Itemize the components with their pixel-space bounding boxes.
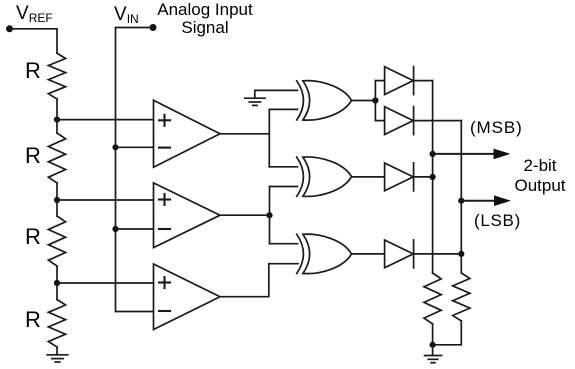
wire D1 cathode to MSB rail bbox=[414, 80, 433, 82]
wire R2 to tap2 bbox=[56, 183, 58, 200]
op-amp comparator U2 bbox=[154, 183, 221, 248]
wire to D2 anode bbox=[375, 120, 384, 122]
diode D1 (to MSB rail) bbox=[385, 67, 414, 95]
node D4 cathode junction bbox=[458, 251, 464, 257]
wire LSB rail vertical bbox=[460, 121, 462, 273]
wire LSB output arrow bbox=[461, 195, 511, 206]
label R1 bbox=[25, 58, 41, 84]
op-amp comparator U1 bbox=[154, 100, 221, 167]
op-amp comparator U3 bbox=[154, 264, 221, 330]
node MSB output junction bbox=[430, 151, 436, 157]
wire tap1 to R2 bbox=[56, 120, 58, 133]
wire tap2 to U2 non-inverting input bbox=[57, 199, 154, 201]
wire MSB rail vertical bbox=[432, 81, 434, 273]
diode D2 (to LSB rail) bbox=[385, 107, 414, 135]
wire VIN to U2 inverting input bbox=[116, 228, 154, 230]
node VIN to U1 bbox=[112, 144, 118, 150]
resistor MSB pulldown bbox=[424, 273, 441, 324]
XOR gate G1 bbox=[297, 81, 352, 120]
resistor R (third, R3) bbox=[48, 216, 65, 266]
resistor R (top, R1) bbox=[48, 53, 65, 99]
wire MSB output arrow bbox=[433, 149, 511, 160]
XOR gate G3 bbox=[297, 234, 352, 273]
wire to G2 lower input bbox=[270, 186, 298, 188]
wire tap3 to U3 non-inverting input bbox=[57, 282, 154, 284]
label LSB bbox=[474, 211, 521, 231]
diode D3 (to MSB rail) bbox=[385, 163, 414, 191]
wire tap2 to R3 bbox=[56, 200, 58, 216]
wire diode pair anode bus bbox=[374, 81, 376, 121]
wire to G3 upper input bbox=[270, 243, 298, 245]
node tap2 (1/2 VREF) bbox=[54, 197, 60, 203]
resistor R (second, R2) bbox=[48, 133, 65, 183]
wire to ground bbox=[432, 345, 434, 356]
wire R1 to tap1 bbox=[56, 99, 58, 120]
resistor LSB pulldown bbox=[453, 273, 470, 321]
node VIN to U2 bbox=[112, 226, 118, 232]
wire U1 output bbox=[220, 133, 269, 135]
node VREF input terminal bbox=[6, 25, 13, 32]
wire G1 output bbox=[352, 100, 376, 102]
wire U2 output bbox=[220, 214, 270, 216]
wire U3 output to G3 lower input bbox=[220, 264, 298, 297]
node pulldown common bbox=[430, 342, 436, 348]
wire D4 cathode to LSB rail bbox=[414, 253, 462, 255]
node LSB output junction bbox=[458, 198, 464, 204]
wire VIN to U1 inverting input bbox=[116, 146, 154, 148]
ground (ladder bottom) bbox=[47, 355, 68, 362]
wire U2 output vertical riser bbox=[269, 187, 271, 244]
label R3 bbox=[25, 224, 41, 250]
wire G2 output to D3 anode bbox=[352, 176, 385, 178]
wire R4 to ground bbox=[56, 347, 58, 355]
node D3 cathode junction bbox=[430, 174, 436, 180]
node tap3 (1/4 VREF) bbox=[54, 280, 60, 286]
label Analog Input Signal bbox=[154, 1, 256, 36]
wire tap1 to U1 non-inverting input bbox=[57, 119, 154, 121]
label R4 bbox=[25, 307, 41, 333]
wire to D1 anode bbox=[375, 80, 384, 82]
resistor R (bottom, R4) bbox=[48, 300, 65, 348]
wire U1 output vertical riser bbox=[268, 109, 270, 166]
label VIN bbox=[114, 4, 139, 26]
node tap1 (3/4 VREF) bbox=[54, 117, 60, 123]
wire R3 to tap3 bbox=[56, 266, 58, 283]
wire LSB pulldown to ground node bbox=[433, 321, 462, 345]
wire D3 cathode to MSB rail bbox=[414, 176, 433, 178]
wire VIN bus down to U3 inverting input bbox=[116, 28, 154, 312]
label MSB bbox=[470, 118, 523, 138]
wire VREF to ladder top bbox=[10, 29, 58, 53]
diode D4 (to LSB rail) bbox=[385, 240, 414, 268]
wire ground to G1 upper input bbox=[255, 90, 298, 98]
wire G3 output to D4 anode bbox=[352, 253, 385, 255]
XOR gate G2 bbox=[297, 157, 352, 196]
wire tap3 to R4 bbox=[56, 283, 58, 300]
label R2 bbox=[25, 143, 41, 169]
wire MSB pulldown to ground node bbox=[432, 324, 434, 345]
ground (G1 upper input) bbox=[245, 98, 265, 105]
wire to G2 upper input bbox=[269, 166, 297, 168]
wire to G1 lower input bbox=[269, 108, 297, 110]
label 2-bit Output bbox=[512, 156, 568, 195]
ground (pulldown common) bbox=[425, 356, 442, 363]
node G1 output split bbox=[372, 97, 378, 103]
node analog input terminal bbox=[150, 24, 157, 31]
node U2 output junction bbox=[266, 212, 272, 218]
wire D2 cathode to LSB rail bbox=[414, 120, 462, 122]
label VREF bbox=[16, 3, 53, 25]
